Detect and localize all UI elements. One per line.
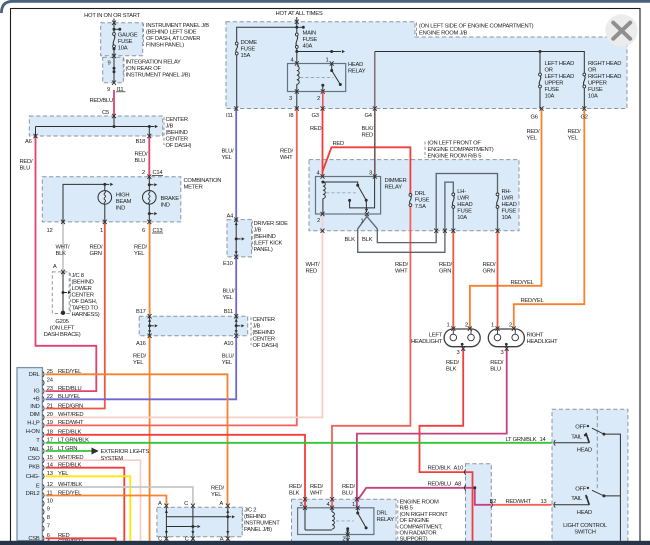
- svg-text:LEFT: LEFT: [429, 332, 443, 338]
- svg-text:TAIL: TAIL: [571, 435, 583, 441]
- svg-text:HARNESS): HARNESS): [72, 312, 100, 318]
- dot A8 junction: [473, 486, 476, 489]
- svg-text:15: 15: [47, 455, 53, 461]
- fuse GAUGE FUSE 10A: [113, 33, 116, 36]
- light switch upper wiper: [592, 428, 604, 434]
- svg-text:7: 7: [47, 523, 50, 529]
- chevron A10: [464, 469, 466, 475]
- svg-text:B17: B17: [136, 309, 146, 315]
- svg-text:C: C: [184, 501, 188, 507]
- svg-text:(ON LEFT: (ON LEFT: [50, 325, 75, 331]
- svg-text:RED/: RED/: [490, 360, 503, 366]
- engine room R/B 5 box (dimmer relay area): [309, 160, 519, 231]
- svg-text:HEAD: HEAD: [502, 202, 517, 208]
- svg-text:A8: A8: [455, 482, 462, 488]
- svg-text:B18: B18: [136, 139, 146, 145]
- svg-text:WHT/BLK: WHT/BLK: [58, 482, 82, 488]
- svg-text:GRN: GRN: [483, 268, 495, 274]
- svg-text:RED/: RED/: [439, 262, 452, 268]
- svg-text:16: 16: [47, 446, 53, 452]
- svg-text:LWR: LWR: [502, 196, 514, 202]
- svg-text:YEL: YEL: [222, 360, 233, 366]
- close button: [605, 14, 637, 46]
- svg-text:IG: IG: [34, 389, 40, 395]
- svg-text:RED/: RED/: [342, 484, 355, 490]
- chevron pin13 entry: [554, 502, 556, 508]
- wire BLU/YEL E10 to B11: [235, 257, 237, 316]
- dimmer coil: [321, 181, 324, 184]
- wire GRN/RED row4 partial: [46, 543, 115, 545]
- svg-text:10A: 10A: [588, 94, 598, 100]
- svg-text:RED/: RED/: [135, 152, 148, 158]
- head relay pin2 contact: [322, 85, 324, 91]
- J/C2 internal verticals: [165, 507, 167, 536]
- DRL relay switch: [357, 508, 359, 513]
- svg-text:CSO: CSO: [28, 456, 41, 462]
- svg-text:2: 2: [142, 170, 145, 176]
- chevron J/C8 entry: [61, 270, 65, 274]
- svg-text:LEFT HEAD: LEFT HEAD: [545, 74, 575, 80]
- svg-text:GAUGE: GAUGE: [118, 33, 138, 39]
- lamp BRAKE IND: [143, 191, 157, 205]
- dimmer coil top link: [323, 182, 358, 185]
- junction dots at main feed: [295, 26, 298, 29]
- svg-text:40A: 40A: [303, 44, 313, 50]
- svg-text:BLU/: BLU/: [222, 149, 235, 155]
- svg-text:RED/: RED/: [446, 360, 459, 366]
- svg-text:LIGHT CONTROL: LIGHT CONTROL: [563, 523, 608, 529]
- svg-text:RED/: RED/: [211, 485, 224, 491]
- svg-text:G2: G2: [581, 115, 588, 121]
- svg-text:WHT: WHT: [395, 268, 408, 274]
- svg-text:INTEGRATION RELAY: INTEGRATION RELAY: [126, 59, 182, 65]
- svg-text:UPPER: UPPER: [545, 81, 564, 87]
- light switch common bus: [604, 434, 621, 541]
- svg-text:FUSE: FUSE: [303, 37, 318, 43]
- svg-text:FINISH PANEL): FINISH PANEL): [146, 43, 184, 49]
- svg-text:(ON REAR OF: (ON REAR OF: [126, 66, 162, 72]
- integration relay internal wire: [113, 57, 115, 82]
- center J/B box (lower): [139, 316, 248, 336]
- svg-text:OF DASH, AT LOWER: OF DASH, AT LOWER: [146, 36, 200, 42]
- light switch pin14 line: [554, 442, 590, 444]
- instrument panel J/B box: [101, 23, 143, 56]
- svg-text:RELAY: RELAY: [377, 517, 395, 523]
- svg-text:RED/: RED/: [134, 245, 147, 251]
- svg-text:RED/BLU: RED/BLU: [428, 482, 451, 488]
- svg-text:RED/BLU: RED/BLU: [90, 98, 113, 104]
- svg-text:BLU/: BLU/: [222, 354, 235, 360]
- svg-text:RED/YEL: RED/YEL: [58, 369, 82, 375]
- dimmer pin1 Y split: [358, 217, 378, 229]
- svg-text:3: 3: [457, 350, 460, 356]
- wire stub J/C2 bottom pin C left: [165, 537, 167, 541]
- svg-text:G3: G3: [312, 113, 319, 119]
- svg-text:RIGHT HEAD: RIGHT HEAD: [588, 74, 621, 80]
- chevrons J/C2 top: [164, 504, 168, 508]
- J/C8 internal wire: [62, 272, 64, 313]
- svg-text:SYSTEM: SYSTEM: [101, 456, 124, 462]
- wire RED branch to DRL fuse: [323, 147, 411, 193]
- J/C 2 box: [157, 507, 242, 536]
- svg-text:ON RADIATOR: ON RADIATOR: [400, 531, 437, 537]
- chevron center J/B entry C5: [112, 114, 116, 118]
- wire gauge fuse to exit: [113, 48, 115, 58]
- wire to gauge fuse: [113, 29, 115, 32]
- svg-text:DRL: DRL: [415, 191, 427, 197]
- svg-text:BEAM: BEAM: [116, 199, 132, 205]
- chevron integration relay exit: [112, 81, 116, 85]
- svg-text:RED/: RED/: [395, 262, 408, 268]
- chevrons J/C2 bottom: [164, 536, 168, 540]
- combination meter box: [42, 177, 181, 222]
- wire BLK/RED G4 to dimmer pin3: [374, 109, 376, 177]
- pin 2 head relay: [321, 89, 325, 93]
- pin 3 dimmer: [373, 174, 377, 178]
- svg-text:GRN: GRN: [90, 251, 102, 257]
- svg-text:E: E: [36, 484, 40, 490]
- connector RIGHT HEADLIGHT: [488, 329, 524, 347]
- svg-text:RED: RED: [362, 132, 374, 138]
- svg-text:(ON RIGHT FRONT: (ON RIGHT FRONT: [400, 512, 449, 518]
- svg-text:YEL: YEL: [211, 492, 222, 498]
- center J/B internal bus: [113, 116, 115, 127]
- J/C 8 box: [52, 272, 69, 314]
- wire dome fuse to I11 exit: [236, 55, 238, 109]
- svg-text:PANEL J/B): PANEL J/B): [244, 527, 272, 533]
- brake ind feed: [148, 177, 150, 191]
- svg-text:WHT/: WHT/: [306, 262, 320, 268]
- svg-text:BLU: BLU: [20, 166, 31, 172]
- svg-text:10: 10: [47, 498, 53, 504]
- svg-text:R/B 5: R/B 5: [400, 506, 413, 512]
- svg-text:PANEL): PANEL): [254, 247, 273, 253]
- wire hot feed into instrument J/B: [113, 19, 115, 29]
- svg-text:INSTRUMENT PANEL J/B: INSTRUMENT PANEL J/B: [146, 23, 209, 29]
- svg-text:G4: G4: [365, 113, 373, 119]
- center J/B2 internal left: [149, 316, 151, 336]
- svg-text:18: 18: [47, 430, 53, 436]
- wire YEL row13 down: [46, 476, 131, 541]
- wire LT GRN/BLK row17 to light switch pin14: [46, 442, 552, 444]
- chevrons right headlight pins: [496, 326, 500, 330]
- light switch lower arm: [586, 495, 590, 505]
- engine room J/B box (top, jogged outline): [226, 22, 627, 109]
- svg-text:IND: IND: [161, 202, 170, 208]
- fuse MAIN FUSE 40A: [295, 33, 298, 36]
- svg-text:HIGH: HIGH: [116, 192, 130, 198]
- svg-text:22: 22: [47, 394, 53, 400]
- svg-text:OF DASH): OF DASH): [253, 343, 279, 349]
- fuse LH-LWR HEAD 10A: [452, 193, 455, 196]
- svg-text:WHT/RED: WHT/RED: [58, 412, 83, 418]
- svg-text:1: 1: [326, 58, 329, 64]
- svg-text:YEL: YEL: [223, 295, 234, 301]
- wire RED/YEL row11 to J/C2 pin A: [46, 496, 167, 506]
- svg-text:(BEHIND: (BEHIND: [253, 330, 275, 336]
- svg-text:BRAKE: BRAKE: [161, 196, 180, 202]
- svg-text:2: 2: [509, 322, 512, 328]
- svg-text:HEAD: HEAD: [577, 448, 592, 454]
- svg-text:YEL: YEL: [222, 155, 233, 161]
- svg-text:A4: A4: [227, 213, 235, 219]
- wire WHT/RED dimmer pin2 to row20: [46, 214, 323, 417]
- svg-text:HEADLIGHT: HEADLIGHT: [411, 339, 443, 345]
- svg-text:LOWER: LOWER: [72, 286, 92, 292]
- svg-text:ENGINE COMPARTMENT): ENGINE COMPARTMENT): [428, 147, 494, 153]
- svg-text:RED/: RED/: [527, 129, 540, 135]
- svg-text:20: 20: [47, 412, 53, 418]
- light switch inner dashed divider: [596, 409, 598, 490]
- engine room R/B 5 box (DRL relay area): [292, 499, 397, 542]
- high beam to pin1 exit: [104, 204, 106, 222]
- svg-text:12: 12: [47, 228, 53, 234]
- wire RED/GRN RH fuse to right headlight pin1: [497, 231, 499, 329]
- svg-text:GRN: GRN: [439, 268, 451, 274]
- wire RED/GRN pin1 to row21: [46, 222, 105, 409]
- svg-text:DRL2: DRL2: [26, 491, 40, 497]
- svg-text:LWR: LWR: [457, 196, 469, 202]
- chevrons center J/B2 entries: [148, 314, 152, 318]
- svg-text:(ON LEFT SIDE OF ENGINE COMPAR: (ON LEFT SIDE OF ENGINE COMPARTMENT): [419, 24, 534, 30]
- svg-text:ENGINE ROOM: ENGINE ROOM: [400, 500, 440, 506]
- svg-text:6: 6: [47, 533, 50, 539]
- svg-text:13: 13: [541, 499, 547, 505]
- chevrons comb meter exits: [61, 220, 65, 224]
- wire hot feed into engine J/B: [296, 17, 298, 27]
- svg-text:LH-: LH-: [457, 189, 466, 195]
- wire stub J/C2 bottom pin A: [227, 537, 229, 541]
- svg-text:3: 3: [289, 96, 292, 102]
- wire stub J/C2 bottom pin C mid: [192, 537, 194, 541]
- wire main feed to main fuse: [296, 27, 298, 33]
- dimmer mech link: [326, 192, 356, 194]
- driver side J/B box: [227, 220, 252, 257]
- brake ind to C13 exit: [148, 204, 150, 222]
- svg-text:WHT/RED: WHT/RED: [58, 455, 83, 461]
- chevrons center J/B exits: [34, 134, 38, 138]
- svg-text:J/C 8: J/C 8: [72, 273, 84, 279]
- svg-text:DIMMER: DIMMER: [385, 178, 407, 184]
- svg-text:12: 12: [47, 482, 53, 488]
- head relay switch arm: [331, 64, 333, 71]
- BLK wire right branch: [377, 174, 497, 243]
- lamp HIGH BEAM IND: [98, 191, 112, 205]
- svg-text:YEL: YEL: [58, 471, 69, 477]
- wire LT GRN row16 to exterior lights arrow: [46, 450, 92, 452]
- svg-text:RED/: RED/: [20, 159, 33, 165]
- svg-text:COMBINATION: COMBINATION: [184, 178, 222, 184]
- svg-text:YEL: YEL: [527, 136, 538, 142]
- svg-text:8: 8: [47, 515, 50, 521]
- pin 2 dimmer: [321, 212, 325, 216]
- svg-text:15A: 15A: [241, 53, 251, 59]
- svg-text:RED/GRN: RED/GRN: [58, 403, 83, 409]
- svg-text:RED/BLK: RED/BLK: [58, 463, 81, 469]
- wire WHT/BLK pin12 to J/C 8: [62, 222, 64, 272]
- svg-text:RH-: RH-: [502, 189, 512, 195]
- svg-text:I11: I11: [226, 113, 233, 119]
- wire RED G3 to dimmer pin4: [322, 109, 324, 177]
- high beam feed from pin12: [63, 184, 105, 222]
- wire RED/GRN LH fuse to left headlight pin1: [452, 231, 454, 329]
- chevrons center J/B2 exits: [148, 334, 152, 338]
- svg-text:RED/: RED/: [310, 484, 323, 490]
- pin 1 head relay: [330, 61, 334, 65]
- svg-text:WHT/: WHT/: [56, 245, 70, 251]
- dimmer pin1 line: [365, 200, 367, 212]
- svg-text:9: 9: [47, 507, 50, 513]
- pin 2 DRL relay: [346, 532, 350, 536]
- chevrons R/B5-2 top edge: [303, 497, 307, 501]
- svg-text:J/B: J/B: [166, 123, 174, 129]
- center J/B drop A6: [35, 127, 37, 137]
- dimmer switch arm: [358, 185, 367, 200]
- svg-text:METER: METER: [184, 184, 203, 190]
- svg-text:FUSE: FUSE: [241, 47, 256, 53]
- svg-text:YEL: YEL: [133, 360, 144, 366]
- svg-text:+B: +B: [33, 397, 40, 403]
- svg-text:BLU: BLU: [135, 158, 146, 164]
- svg-text:A: A: [219, 501, 223, 507]
- svg-text:WHT: WHT: [310, 490, 323, 496]
- svg-text:OFF: OFF: [575, 487, 587, 493]
- svg-text:OF DASH): OF DASH): [166, 143, 192, 149]
- svg-text:2: 2: [317, 218, 320, 224]
- light switch upper arm: [586, 433, 590, 443]
- svg-text:J/B: J/B: [253, 323, 261, 329]
- svg-text:HEAD: HEAD: [457, 202, 472, 208]
- dimmer NO contact: [348, 199, 351, 202]
- svg-text:I8: I8: [289, 113, 293, 119]
- light switch pin13 line: [554, 504, 590, 506]
- svg-text:RED/: RED/: [568, 129, 581, 135]
- center J/B box (upper): [29, 116, 162, 136]
- svg-text:9: 9: [107, 87, 110, 93]
- svg-text:A: A: [158, 501, 162, 507]
- window top band with rounded left corner: [1, 1, 650, 13]
- svg-text:A: A: [53, 264, 57, 270]
- svg-text:RIGHT: RIGHT: [527, 332, 544, 338]
- svg-text:FUSE: FUSE: [457, 209, 472, 215]
- wire RED row6: [46, 538, 116, 541]
- svg-text:RELAY: RELAY: [385, 184, 403, 190]
- svg-text:H-ON: H-ON: [26, 429, 40, 435]
- svg-text:RED/YEL: RED/YEL: [511, 280, 535, 286]
- wire RED/BLU A8 inside strip to B2: [461, 488, 492, 505]
- svg-text:10A: 10A: [118, 46, 128, 52]
- svg-text:RED/BLK: RED/BLK: [428, 466, 451, 472]
- svg-text:BLU/: BLU/: [223, 289, 236, 295]
- DRL relay mech link: [336, 520, 354, 522]
- svg-text:RED/: RED/: [90, 245, 103, 251]
- wire RED/YEL G6 to left headlight pin2: [470, 109, 542, 329]
- wire BLU/YEL I11 to A4: [235, 109, 237, 220]
- wire RED/BLU integration relay to center J/B: [113, 90, 115, 116]
- ground point G205: [61, 311, 65, 315]
- svg-text:1: 1: [352, 502, 355, 508]
- svg-text:RED/BLU: RED/BLU: [58, 386, 81, 392]
- svg-text:24: 24: [47, 378, 54, 384]
- svg-text:E10: E10: [223, 261, 233, 267]
- svg-text:CENTER: CENTER: [166, 136, 188, 142]
- svg-text:RED/WHT: RED/WHT: [58, 420, 84, 426]
- svg-text:WHT: WHT: [280, 155, 293, 161]
- svg-text:RED: RED: [333, 141, 345, 147]
- pins DRL relay top: [303, 506, 307, 510]
- wire BLU/YEL A10 to row22: [46, 336, 237, 400]
- light control switch box: [552, 409, 628, 544]
- svg-text:10A: 10A: [457, 215, 467, 221]
- wire RED/BLU right headlight pin3 to DRL relay pin1: [357, 349, 507, 508]
- svg-text:10A: 10A: [502, 215, 512, 221]
- wire WHT/BLK row12 to J/C2 pin C: [46, 487, 193, 505]
- left connector block: [17, 368, 42, 541]
- head relay coil: [297, 66, 299, 84]
- svg-text:J/C 2: J/C 2: [244, 507, 256, 513]
- svg-text:HEAD: HEAD: [577, 510, 592, 516]
- svg-text:(LEFT KICK: (LEFT KICK: [254, 240, 283, 246]
- svg-text:PKB: PKB: [29, 465, 40, 471]
- svg-text:RIGHT HEAD: RIGHT HEAD: [588, 61, 621, 67]
- svg-text:23: 23: [47, 386, 53, 392]
- svg-text:RED/BLK: RED/BLK: [58, 430, 81, 436]
- center J/B2 internal right: [235, 316, 237, 336]
- svg-text:17: 17: [47, 438, 53, 444]
- svg-text:LT GRN: LT GRN: [58, 446, 77, 452]
- chevron driver J/B entry: [234, 217, 238, 221]
- svg-text:HOT IN ON OR START: HOT IN ON OR START: [84, 13, 140, 19]
- svg-text:14: 14: [47, 463, 54, 469]
- svg-text:OR: OR: [545, 68, 553, 74]
- fuse LEFT HEAD UPPER 10A: [539, 73, 542, 76]
- svg-text:B11: B11: [224, 309, 233, 315]
- junction dots gauge feed: [113, 28, 116, 31]
- svg-text:SWITCH: SWITCH: [574, 530, 595, 536]
- svg-text:J/B: J/B: [254, 227, 262, 233]
- svg-text:YEL: YEL: [568, 136, 579, 142]
- bottom dark bar: [0, 541, 650, 545]
- svg-text:RED: RED: [58, 533, 70, 539]
- svg-text:13: 13: [47, 471, 53, 477]
- DRL relay pin2 contact: [346, 527, 349, 530]
- connector LEFT HEADLIGHT: [444, 329, 480, 347]
- center J/B drop B18: [148, 127, 150, 137]
- svg-text:CENTER: CENTER: [166, 117, 188, 123]
- chevron driver J/B exit: [234, 255, 238, 259]
- bus wire main to relay pin4: [296, 52, 298, 64]
- svg-text:3: 3: [300, 502, 303, 508]
- svg-text:ENGINE ROOM J/B: ENGINE ROOM J/B: [419, 31, 467, 37]
- exit chevrons engine J/B bottom: [234, 106, 238, 110]
- chevrons left headlight pins: [451, 326, 455, 330]
- wire RED/BLK row14 down: [46, 468, 125, 541]
- wire RED/BLK left headlight pin3 to A10: [420, 349, 467, 473]
- svg-text:2: 2: [317, 96, 320, 102]
- svg-text:RED/: RED/: [289, 484, 302, 490]
- svg-text:HEADLIGHT: HEADLIGHT: [527, 339, 559, 345]
- svg-text:3: 3: [501, 350, 504, 356]
- wire left head fuse drop: [539, 52, 541, 74]
- svg-text:(BEHIND: (BEHIND: [166, 130, 188, 136]
- wire RED/YEL row25 to J/C2: [46, 374, 228, 505]
- svg-text:CENTER: CENTER: [253, 336, 275, 342]
- integration relay box: [103, 57, 124, 82]
- svg-text:CENTER: CENTER: [72, 292, 94, 298]
- wire RED/WHT I8 to row19: [46, 109, 297, 426]
- svg-text:IND: IND: [30, 404, 39, 410]
- chevron instrument J/B entry: [112, 21, 116, 25]
